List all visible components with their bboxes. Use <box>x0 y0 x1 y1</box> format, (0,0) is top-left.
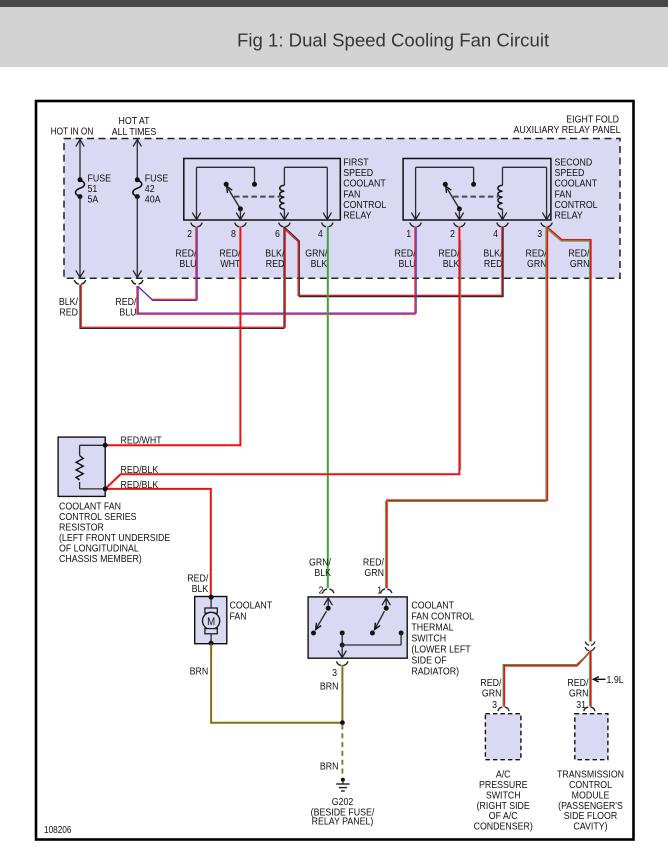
svg-text:GRN: GRN <box>364 567 384 579</box>
svg-text:BLK: BLK <box>311 258 328 270</box>
svg-text:GRN: GRN <box>527 258 547 270</box>
svg-text:2: 2 <box>450 229 455 241</box>
svg-text:5A: 5A <box>88 194 99 206</box>
svg-text:RED: RED <box>59 307 78 319</box>
svg-text:BLU: BLU <box>179 258 196 270</box>
svg-text:BLU: BLU <box>119 307 136 319</box>
svg-text:WHT: WHT <box>220 258 240 270</box>
svg-text:40A: 40A <box>145 194 161 206</box>
svg-text:31: 31 <box>576 699 586 711</box>
svg-text:108206: 108206 <box>44 824 71 835</box>
svg-text:RELAY PANEL): RELAY PANEL) <box>312 816 374 828</box>
svg-text:CAVITY): CAVITY) <box>573 821 607 833</box>
svg-text:Fig 1: Dual Speed Cooling Fan: Fig 1: Dual Speed Cooling Fan Circuit <box>237 29 550 50</box>
svg-text:RED: RED <box>266 258 285 270</box>
svg-text:BRN: BRN <box>320 761 339 773</box>
svg-text:3: 3 <box>492 699 497 711</box>
svg-text:FAN: FAN <box>230 611 247 623</box>
svg-text:BLK: BLK <box>443 258 460 270</box>
svg-text:1: 1 <box>406 229 411 241</box>
svg-text:HOT IN ON: HOT IN ON <box>51 126 94 137</box>
svg-text:GRN: GRN <box>482 688 502 700</box>
svg-text:2: 2 <box>187 229 192 241</box>
svg-text:RELAY: RELAY <box>343 210 372 222</box>
svg-text:CHASSIS MEMBER): CHASSIS MEMBER) <box>59 553 142 565</box>
svg-text:BRN: BRN <box>190 666 209 678</box>
svg-text:AUXILIARY RELAY PANEL: AUXILIARY RELAY PANEL <box>514 125 621 137</box>
svg-text:HOT AT: HOT AT <box>118 115 149 127</box>
svg-text:4: 4 <box>493 229 498 241</box>
svg-text:1.9L: 1.9L <box>607 674 625 686</box>
svg-text:GRN: GRN <box>569 688 589 700</box>
svg-text:4: 4 <box>318 229 323 241</box>
svg-text:BRN: BRN <box>320 681 339 693</box>
svg-text:6: 6 <box>275 229 280 241</box>
svg-text:BLK: BLK <box>192 583 209 595</box>
svg-text:RED: RED <box>484 258 503 270</box>
svg-text:CONDENSER): CONDENSER) <box>474 821 533 833</box>
svg-text:GRN: GRN <box>570 258 590 270</box>
svg-text:RED/WHT: RED/WHT <box>121 435 162 447</box>
svg-text:2: 2 <box>319 585 324 597</box>
svg-text:BLK: BLK <box>314 567 331 579</box>
svg-text:RED/BLK: RED/BLK <box>121 479 159 491</box>
svg-text:3: 3 <box>332 667 337 679</box>
svg-text:8: 8 <box>231 229 236 241</box>
svg-text:3: 3 <box>537 229 542 241</box>
svg-text:BLU: BLU <box>398 258 415 270</box>
svg-text:RED/BLK: RED/BLK <box>121 464 159 476</box>
svg-text:RELAY: RELAY <box>555 210 584 222</box>
svg-text:M: M <box>207 615 215 628</box>
svg-text:RADIATOR): RADIATOR) <box>411 666 459 678</box>
svg-text:1: 1 <box>377 585 382 597</box>
svg-text:ALL TIMES: ALL TIMES <box>112 126 157 138</box>
